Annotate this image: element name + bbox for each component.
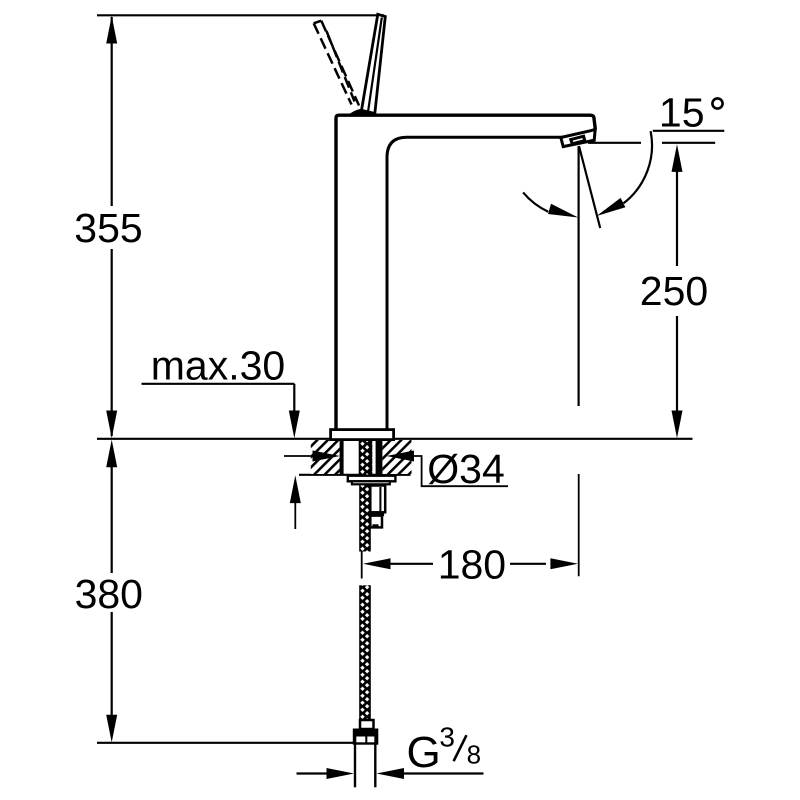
svg-text:380: 380 [75,571,143,617]
svg-text:355: 355 [74,205,142,251]
svg-text:Ø34: Ø34 [427,446,505,492]
svg-text:180: 180 [438,542,506,588]
svg-text:3: 3 [439,722,455,753]
svg-text:8: 8 [467,740,481,770]
svg-text:G: G [407,728,441,777]
svg-text:15: 15 [659,89,705,135]
svg-text:max.30: max.30 [151,343,285,389]
svg-text:250: 250 [640,268,708,314]
